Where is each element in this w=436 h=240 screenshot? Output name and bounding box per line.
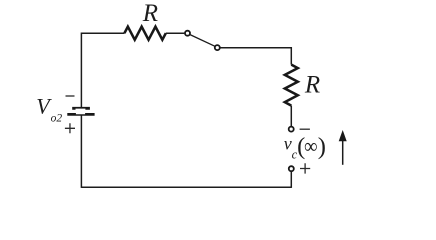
battery V_o2 bottom plate (positive, long) bbox=[67, 113, 94, 116]
wire left vertical (below battery) bbox=[80, 116, 82, 188]
plus sign at bottom terminal bbox=[300, 163, 310, 173]
node plus terminal circle (open) bbox=[289, 166, 294, 171]
resistor R1 (top) bbox=[124, 27, 165, 40]
battery plus sign bbox=[65, 123, 75, 133]
resistor R2 (right, vertical) bbox=[285, 65, 298, 106]
wire plus terminal to bottom rail bbox=[290, 172, 292, 188]
wire left vertical (top of battery) bbox=[80, 33, 82, 108]
wire bottom rail bbox=[81, 186, 291, 188]
wire switch to top-right corner bbox=[220, 47, 291, 49]
battery minus sign bbox=[66, 95, 75, 97]
svg-text:o2: o2 bbox=[51, 113, 63, 125]
wire resistor R1 to switch pole bbox=[166, 32, 185, 34]
wire right vertical to resistor R2 bbox=[290, 47, 292, 65]
switch S1 throw terminal circle bbox=[215, 45, 220, 50]
svg-text:R: R bbox=[304, 72, 320, 99]
wire top-left horizontal bbox=[81, 32, 124, 34]
svg-text:∞: ∞ bbox=[304, 134, 317, 158]
minus sign at top terminal bbox=[300, 128, 310, 130]
battery V_o2 top plate (negative, short) bbox=[72, 107, 90, 110]
switch S1 blade (open) bbox=[190, 35, 215, 47]
node minus terminal circle (open) bbox=[289, 127, 294, 132]
svg-text:): ) bbox=[318, 133, 326, 160]
wire resistor R2 to node minus terminal bbox=[290, 106, 292, 127]
svg-text:R: R bbox=[142, 0, 158, 27]
reference arrow (up) bbox=[342, 141, 344, 165]
switch S1 pole terminal circle bbox=[185, 31, 190, 36]
svg-text:v: v bbox=[284, 134, 292, 154]
